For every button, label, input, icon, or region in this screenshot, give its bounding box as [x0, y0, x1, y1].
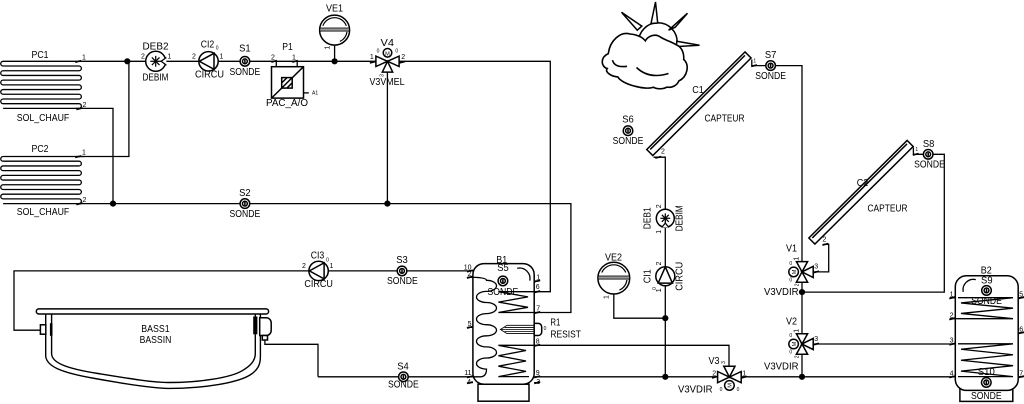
svg-text:3: 3	[814, 336, 818, 343]
svg-text:S6: S6	[622, 115, 634, 126]
svg-text:SONDE: SONDE	[387, 276, 418, 287]
svg-text:6: 6	[536, 284, 540, 291]
svg-text:V3VDIR: V3VDIR	[678, 385, 713, 396]
svg-text:M: M	[792, 269, 798, 274]
svg-text:SONDE: SONDE	[230, 67, 261, 78]
svg-text:A1: A1	[312, 91, 318, 97]
sensor S9 in B2	[971, 276, 1002, 307]
pump CI2	[192, 40, 224, 81]
svg-text:C2: C2	[857, 178, 869, 189]
svg-text:SOL_CHAUF: SOL_CHAUF	[17, 113, 70, 124]
heating coil PC1	[1, 61, 84, 108]
svg-text:CIRCU: CIRCU	[195, 70, 224, 81]
svg-text:1: 1	[82, 150, 86, 157]
svg-text:1: 1	[656, 230, 663, 234]
svg-text:S10: S10	[978, 367, 995, 378]
svg-text:PC1: PC1	[32, 50, 49, 61]
svg-text:DEB1: DEB1	[643, 207, 654, 229]
valve V2 V3VDIR	[764, 317, 818, 373]
svg-text:2: 2	[83, 197, 87, 204]
sun	[622, 2, 700, 61]
flow meter DEB1	[643, 204, 686, 234]
pump CI3	[302, 251, 334, 291]
svg-text:V1: V1	[786, 244, 797, 255]
wire pool supply (left) to CI3 line	[14, 271, 473, 330]
svg-text:DEBIM: DEBIM	[143, 73, 169, 84]
wire B1 pin8 to V3 top port	[534, 345, 729, 366]
wire bottom line B1 pin11/pin9 to B2 pin4	[318, 376, 955, 378]
svg-text:2: 2	[192, 54, 196, 61]
heating coil PC2	[1, 157, 85, 204]
svg-text:3: 3	[814, 264, 818, 271]
valve V1 V3VDIR	[764, 244, 818, 298]
svg-text:CIRCU: CIRCU	[675, 262, 686, 291]
svg-text:1: 1	[604, 295, 611, 299]
junction V2 bottom	[799, 374, 805, 380]
svg-text:M: M	[792, 341, 798, 346]
svg-text:PC2: PC2	[32, 144, 49, 155]
wire V1 bottom to V2 top	[801, 282, 803, 334]
svg-text:S4: S4	[397, 361, 409, 372]
svg-text:CIRCU: CIRCU	[304, 279, 333, 290]
svg-text:SONDE: SONDE	[914, 160, 945, 171]
svg-text:VE1: VE1	[326, 4, 343, 15]
heating element R1 RESIST	[500, 318, 581, 341]
svg-text:SONDE: SONDE	[388, 379, 419, 390]
svg-text:P1: P1	[282, 42, 293, 53]
svg-text:0: 0	[652, 287, 658, 290]
svg-text:0: 0	[789, 333, 792, 339]
svg-text:VE2: VE2	[605, 253, 622, 264]
wire PC2 pin1 riser	[76, 61, 129, 156]
svg-text:M: M	[385, 51, 390, 57]
svg-text:1: 1	[370, 54, 374, 61]
svg-text:1: 1	[220, 54, 224, 61]
svg-text:DEBIM: DEBIM	[675, 205, 686, 231]
svg-text:SONDE: SONDE	[230, 209, 261, 220]
svg-text:V4: V4	[381, 38, 395, 49]
solar collector C2 CAPTEUR	[809, 140, 913, 244]
sensor S6	[613, 115, 644, 147]
wire C1 top to S7 to V1 riser	[752, 60, 802, 262]
svg-text:0: 0	[395, 48, 398, 54]
wire C1 collector down through DEB1 CI1	[654, 157, 666, 377]
svg-text:C1: C1	[692, 85, 704, 96]
svg-text:1: 1	[330, 263, 334, 270]
svg-text:1: 1	[793, 329, 800, 333]
wire pool return via S4 bottom line	[265, 340, 318, 377]
svg-text:S8: S8	[923, 139, 935, 150]
expansion vessel VE2	[598, 253, 630, 299]
svg-text:CAPTEUR: CAPTEUR	[868, 204, 908, 215]
svg-text:SONDE: SONDE	[613, 136, 644, 147]
flow meter DEB2	[141, 42, 172, 84]
junction V4-drop/S2	[384, 201, 390, 207]
B2 pin stubs and numbers	[950, 291, 1024, 377]
svg-text:CAPTEUR: CAPTEUR	[705, 114, 745, 125]
svg-text:2: 2	[661, 149, 665, 156]
svg-text:0: 0	[789, 261, 792, 267]
svg-text:SOL_CHAUF: SOL_CHAUF	[17, 207, 70, 218]
svg-text:1: 1	[82, 55, 86, 62]
svg-text:V3VMEL: V3VMEL	[370, 77, 405, 88]
B1 pin stubs and numbers	[464, 264, 541, 386]
wire C2 bottom to V1 side port	[813, 244, 829, 272]
B1 lower heat exchanger coil (pins 8-9)	[498, 345, 534, 376]
svg-text:2: 2	[823, 237, 827, 244]
svg-text:1: 1	[168, 54, 172, 61]
junction V1 bottom	[799, 289, 805, 295]
junction CI1 line/bottom	[662, 374, 668, 380]
sensor S7	[755, 50, 786, 82]
wire V2 bottom to bottom line	[801, 355, 803, 377]
valve V4 V3VMEL	[370, 38, 406, 88]
svg-text:S3: S3	[396, 255, 408, 266]
svg-text:2: 2	[794, 283, 800, 286]
svg-text:DEB2: DEB2	[143, 42, 169, 53]
svg-text:1: 1	[325, 45, 332, 49]
junction PC1/main	[124, 58, 130, 64]
svg-text:R1: R1	[550, 318, 560, 329]
B2 lower heat exchanger coil (pins 3-4)	[958, 344, 1013, 377]
svg-text:CI1: CI1	[643, 269, 654, 283]
pin tick marks	[75, 61, 1024, 384]
svg-text:SONDE: SONDE	[755, 71, 786, 82]
pump CI1	[643, 261, 686, 292]
svg-text:1: 1	[793, 257, 800, 261]
svg-text:0: 0	[544, 326, 547, 332]
expansion vessel VE1	[320, 4, 350, 50]
svg-text:SONDE: SONDE	[488, 287, 519, 298]
svg-text:1: 1	[753, 59, 756, 65]
sensor S10 in B2	[971, 367, 1002, 402]
storage tank B2	[955, 265, 1018, 401]
B1 coil serpentine (pins 2-11)	[468, 277, 497, 377]
wire S2 return line y=203.6	[79, 204, 571, 313]
svg-text:0: 0	[720, 387, 723, 393]
svg-text:M: M	[728, 383, 734, 388]
junction VE1	[332, 58, 338, 64]
svg-text:RESIST: RESIST	[550, 330, 581, 341]
svg-text:2: 2	[794, 355, 800, 358]
svg-text:0: 0	[377, 48, 380, 54]
junction VE2 tap	[662, 315, 668, 321]
svg-text:S1: S1	[239, 44, 251, 55]
wire main supply line y=61	[84, 61, 550, 291]
svg-text:SONDE: SONDE	[971, 391, 1002, 402]
svg-text:V3VDIR: V3VDIR	[764, 287, 799, 298]
B1 upper heat exchanger coil (pins 6-7)	[498, 292, 534, 313]
svg-text:3: 3	[380, 74, 386, 77]
svg-text:S5: S5	[497, 263, 509, 274]
sensor S5 in B1	[488, 263, 519, 298]
svg-text:V3VDIR: V3VDIR	[764, 362, 799, 373]
sensor S8	[914, 139, 945, 171]
svg-text:0: 0	[789, 277, 792, 283]
svg-text:SONDE: SONDE	[971, 296, 1002, 307]
buffer tank B1	[473, 255, 534, 401]
wire VE2 stem tap	[614, 294, 666, 318]
pool BASS1 BASSIN	[36, 309, 271, 389]
svg-text:V2: V2	[786, 317, 797, 328]
svg-text:2: 2	[401, 54, 405, 61]
sensor S3	[387, 255, 418, 287]
valve V3 V3VDIR	[678, 356, 746, 396]
svg-text:S9: S9	[981, 276, 993, 287]
wire V4 bottom port drop	[386, 62, 388, 204]
svg-text:2: 2	[302, 263, 306, 270]
svg-text:V3: V3	[709, 356, 720, 367]
sensor S2	[230, 188, 261, 220]
wire V2 side port to B2 pin3	[813, 343, 955, 345]
svg-text:CI2: CI2	[201, 40, 215, 51]
svg-text:BASSIN: BASSIN	[140, 335, 172, 346]
svg-text:PAC_A/O: PAC_A/O	[266, 98, 308, 109]
junction PC1-drop/S2	[110, 201, 116, 207]
cloud	[602, 34, 687, 89]
sensor S4	[388, 361, 419, 390]
svg-text:2: 2	[656, 261, 663, 265]
wire PC1 pin2 drop	[76, 108, 113, 203]
svg-text:S2: S2	[239, 188, 251, 199]
svg-text:0: 0	[789, 350, 792, 356]
svg-text:2: 2	[656, 204, 663, 208]
svg-text:2: 2	[141, 54, 145, 61]
svg-text:0: 0	[737, 387, 740, 393]
wire VE1 stem	[334, 45, 336, 62]
svg-text:0: 0	[216, 46, 219, 52]
svg-text:BASS1: BASS1	[141, 324, 170, 335]
svg-text:1: 1	[915, 147, 918, 153]
svg-text:3: 3	[721, 361, 727, 364]
sensor S1	[230, 44, 261, 78]
svg-text:2: 2	[83, 102, 87, 109]
wire C2 top to S8 down to V1 junction	[802, 148, 944, 293]
svg-text:S7: S7	[765, 50, 777, 61]
solar collector C1 CAPTEUR	[647, 52, 751, 156]
svg-text:CI3: CI3	[311, 251, 325, 262]
B2 upper heat exchanger coil (pins 1-2)	[950, 297, 955, 299]
heat pump P1 PAC_A/O	[266, 42, 318, 109]
